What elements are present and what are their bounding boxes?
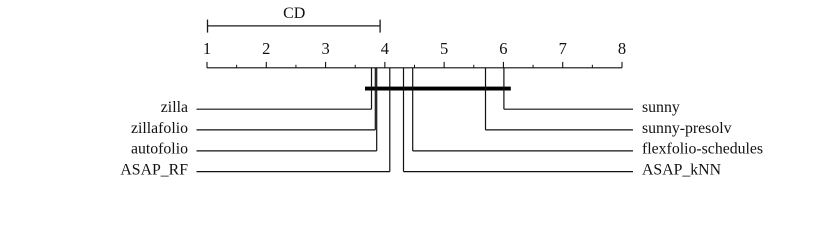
algorithm zillafolio connector: [197, 129, 376, 131]
svg-text:ASAP_kNN: ASAP_kNN: [642, 161, 722, 178]
svg-text:4: 4: [381, 39, 389, 58]
algorithm ASAP_kNN vertical: [403, 68, 405, 172]
major tick 1: [206, 62, 208, 68]
algorithm ASAP_RF vertical: [389, 68, 391, 172]
algorithm autofolio vertical: [376, 68, 378, 151]
algorithm zilla connector: [197, 108, 372, 110]
major tick 8: [621, 62, 623, 68]
svg-text:7: 7: [559, 39, 567, 58]
CD bracket right cap: [379, 20, 381, 33]
CD bracket line: [208, 25, 381, 27]
svg-text:ASAP_RF: ASAP_RF: [120, 161, 188, 178]
clique bar (no significant difference group): [365, 87, 511, 91]
svg-text:flexfolio-schedules: flexfolio-schedules: [642, 141, 763, 158]
major tick 3: [325, 62, 327, 68]
algorithm sunny-presolv connector: [486, 129, 634, 131]
svg-text:2: 2: [262, 39, 270, 58]
major tick 6: [502, 62, 504, 68]
minor tick 4.5: [414, 65, 416, 68]
algorithm sunny-presolv vertical: [485, 68, 487, 130]
minor tick 2.5: [295, 65, 297, 68]
svg-text:8: 8: [618, 39, 626, 58]
svg-text:zilla: zilla: [161, 99, 188, 116]
algorithm ASAP_RF connector: [197, 171, 390, 173]
svg-text:5: 5: [440, 39, 448, 58]
svg-text:6: 6: [499, 39, 507, 58]
major tick 2: [265, 62, 267, 68]
minor tick 3.5: [354, 65, 356, 68]
algorithm sunny vertical: [503, 68, 505, 109]
svg-text:3: 3: [321, 39, 329, 58]
svg-text:autofolio: autofolio: [131, 141, 188, 158]
svg-text:sunny-presolv: sunny-presolv: [642, 120, 732, 137]
algorithm zillafolio vertical: [374, 68, 376, 130]
algorithm flexfolio-schedules connector: [413, 150, 633, 152]
minor tick 7.5: [591, 65, 593, 68]
svg-text:sunny: sunny: [642, 99, 680, 116]
minor tick 1.5: [236, 65, 238, 68]
major tick 4: [384, 62, 386, 68]
algorithm ASAP_kNN connector: [404, 171, 634, 173]
algorithm zilla vertical: [371, 68, 373, 109]
svg-text:1: 1: [203, 39, 211, 58]
svg-text:CD: CD: [283, 5, 305, 22]
major tick 5: [443, 62, 445, 68]
algorithm autofolio connector: [197, 150, 377, 152]
axis line: [207, 67, 622, 69]
algorithm flexfolio-schedules vertical: [412, 68, 414, 151]
major tick 7: [562, 62, 564, 68]
minor tick 6.5: [532, 65, 534, 68]
svg-text:zillafolio: zillafolio: [131, 120, 188, 137]
minor tick 5.5: [473, 65, 475, 68]
algorithm sunny connector: [504, 108, 633, 110]
CD bracket left cap: [207, 20, 209, 33]
